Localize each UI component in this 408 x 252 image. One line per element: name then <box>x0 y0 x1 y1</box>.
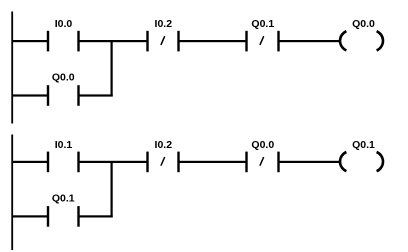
coil Q0.1 right paren <box>377 152 383 171</box>
NC contact I0.2 (rung2) right bar <box>177 152 179 173</box>
junction vertical wire rung2 (parallel branch) <box>111 162 113 218</box>
svg-text:Q0.0: Q0.0 <box>52 72 75 84</box>
NC contact Q0.1 slash <box>260 36 264 45</box>
NC contact Q0.1 right bar <box>277 31 279 52</box>
branch contact Q0.0 right bar <box>77 85 79 106</box>
junction vertical wire rung1 (parallel branch) <box>111 41 113 97</box>
branch wire rung2 rail to contact Q0.1 <box>12 215 48 217</box>
svg-text:I0.2: I0.2 <box>155 18 173 30</box>
wire contact I0.2 to contact Q0.0 (rung2) <box>178 161 247 163</box>
NC contact I0.2 right bar <box>177 31 179 52</box>
branch contact Q0.1 right bar <box>77 206 79 227</box>
NC contact I0.2 (rung2) slash <box>161 157 165 166</box>
svg-text:Q0.0: Q0.0 <box>352 18 375 30</box>
NC contact Q0.1 left bar <box>245 31 247 52</box>
branch wire contact Q0.1 to junction <box>78 215 113 217</box>
left power rail rung 1 <box>11 12 13 124</box>
svg-text:I0.0: I0.0 <box>55 18 73 30</box>
left power rail rung 2 <box>11 135 13 251</box>
contact I0.1 left bar <box>47 152 49 173</box>
NC contact Q0.0 slash <box>260 157 264 166</box>
svg-text:Q0.1: Q0.1 <box>52 192 75 204</box>
NC contact I0.2 (rung2) left bar <box>146 152 148 173</box>
NC contact Q0.0 right bar <box>277 152 279 173</box>
svg-text:Q0.1: Q0.1 <box>352 139 375 151</box>
wire contact I0.1 to contact I0.2 <box>78 161 148 163</box>
svg-text:I0.2: I0.2 <box>155 139 173 151</box>
wire rung2 rail to contact I0.1 <box>12 161 48 163</box>
wire contact Q0.1 to coil Q0.0 <box>278 40 340 42</box>
svg-text:I0.1: I0.1 <box>55 139 73 151</box>
NC contact I0.2 slash <box>161 36 165 45</box>
wire contact Q0.0 to coil Q0.1 <box>278 161 340 163</box>
branch contact Q0.1 left bar <box>47 206 49 227</box>
contact I0.0 left bar <box>47 31 49 52</box>
wire contact I0.0 to contact I0.2 <box>78 40 148 42</box>
coil Q0.0 right paren <box>377 31 383 50</box>
contact I0.1 right bar <box>77 152 79 173</box>
wire contact I0.2 to contact Q0.1 <box>178 40 247 42</box>
NC contact Q0.0 left bar <box>245 152 247 173</box>
svg-text:Q0.1: Q0.1 <box>251 18 274 30</box>
branch contact Q0.0 left bar <box>47 85 49 106</box>
branch wire rung1 rail to contact Q0.0 <box>12 94 48 96</box>
coil Q0.0 left paren <box>340 31 346 50</box>
NC contact I0.2 left bar <box>146 31 148 52</box>
wire rung1 rail to contact I0.0 <box>12 40 48 42</box>
svg-text:Q0.0: Q0.0 <box>251 139 274 151</box>
branch wire contact Q0.0 to junction <box>78 94 113 96</box>
coil Q0.1 left paren <box>340 152 346 171</box>
contact I0.0 right bar <box>77 31 79 52</box>
